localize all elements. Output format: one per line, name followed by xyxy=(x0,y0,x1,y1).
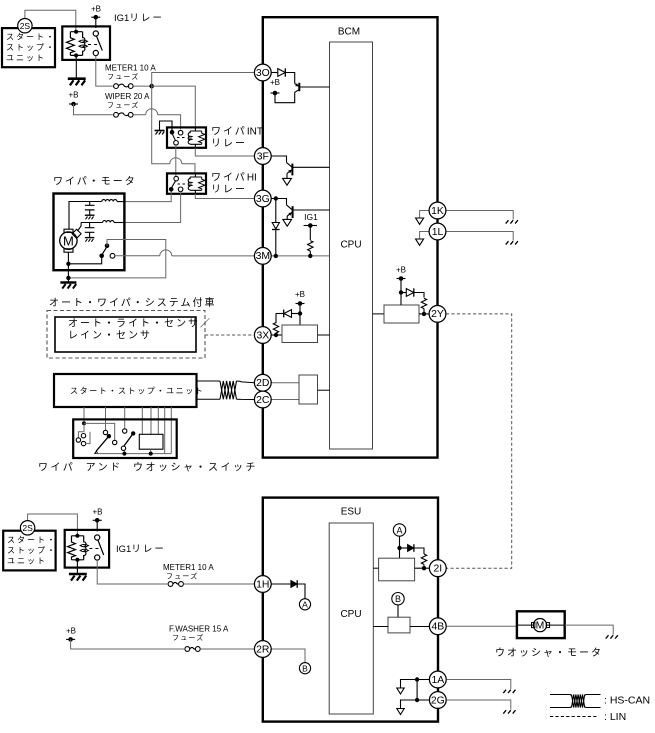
connector pin 1K xyxy=(429,202,446,219)
wire 1L to ground xyxy=(446,232,514,241)
arrow to ground (3F) xyxy=(283,178,292,185)
svg-text:ユニット: ユニット xyxy=(6,54,46,63)
svg-text:: LIN: : LIN xyxy=(604,711,626,723)
diode D-1H (pointing right) xyxy=(291,580,297,588)
svg-text:METER1 10 A: METER1 10 A xyxy=(105,64,156,73)
node dot IG1 resistor on 3M rail xyxy=(308,254,312,258)
twisted pair (HS-CAN to 2D/2C) xyxy=(220,381,237,399)
wire WIPER fuse to INT relay switch xyxy=(133,115,181,130)
power +B (F.WASHER) xyxy=(66,627,76,642)
wire CPU to driver 2I xyxy=(373,567,378,569)
wire 3G feed xyxy=(271,199,287,205)
svg-text:ウオッシャ・モータ: ウオッシャ・モータ xyxy=(495,647,603,659)
connector pin 2G xyxy=(429,692,446,709)
svg-text:: HS-CAN: : HS-CAN xyxy=(604,695,650,707)
ground (INT relay) xyxy=(155,131,165,135)
node dots on rail xyxy=(122,452,126,456)
node dot (loop to ground rail) xyxy=(66,276,70,280)
wire IG1 to resistor xyxy=(309,226,311,241)
svg-text:B: B xyxy=(302,664,308,674)
wire +B to F.WASHER fuse xyxy=(71,639,185,649)
wire park switch upper to outside loop xyxy=(68,240,165,278)
wire driver to 2I xyxy=(415,567,430,569)
svg-text:M: M xyxy=(63,233,74,248)
svg-text:ワイパ・モータ: ワイパ・モータ xyxy=(53,176,137,188)
wire relay coil to ground xyxy=(75,56,77,78)
motor winding row2 wire xyxy=(81,222,103,224)
svg-text:+B: +B xyxy=(396,266,406,275)
relay IG1 box (top) xyxy=(62,26,110,60)
wire 2G to ground xyxy=(447,700,511,710)
ground (1K) xyxy=(506,220,518,223)
resistor R-2Y xyxy=(421,298,426,308)
wire 3O feed inside BCM xyxy=(271,72,278,74)
svg-text:2I: 2I xyxy=(433,564,442,575)
wire driver to 4B xyxy=(410,626,430,628)
start-stop unit box (middle) xyxy=(54,374,204,407)
wire motor link to park switch pivot xyxy=(68,258,101,264)
relay HI switch xyxy=(169,176,185,191)
svg-text:ユニット: ユニット xyxy=(7,557,47,566)
wire ground to INT switch common xyxy=(160,121,173,132)
wire resistor to 2I node xyxy=(423,564,425,568)
svg-text:スタート・: スタート・ xyxy=(6,33,56,42)
wire fuse to junction xyxy=(133,85,152,87)
svg-text:+B: +B xyxy=(66,627,76,636)
label wiper HI relay xyxy=(211,172,257,196)
node dot below +B (3X) xyxy=(298,311,302,315)
wire row1 to box edge xyxy=(117,201,124,203)
motor M1 xyxy=(60,229,81,252)
svg-text:+B: +B xyxy=(68,91,78,100)
relay wiper-INT box xyxy=(167,127,206,147)
node dot (motor-park link) xyxy=(66,262,70,266)
wire driver to 2Y xyxy=(419,313,430,315)
svg-text:CPU: CPU xyxy=(340,240,361,251)
legend LIN dashed xyxy=(550,716,598,718)
connector pin 2Y xyxy=(429,306,446,323)
wire twisted pair lower xyxy=(197,398,221,400)
wire 3M rail to CPU xyxy=(271,255,330,257)
connector pin 2S (top) xyxy=(18,19,32,33)
wire 4B to washer motor xyxy=(447,625,517,627)
svg-text:+B: +B xyxy=(92,508,102,517)
wire junction down to HI relay feed xyxy=(152,86,195,173)
power +B (WIPER fuse) xyxy=(68,91,78,107)
connector pin 2C xyxy=(254,391,271,408)
svg-text:3M: 3M xyxy=(256,251,270,262)
connector pin 3M xyxy=(254,248,271,265)
svg-text:B: B xyxy=(395,594,401,604)
svg-text:フューズ: フューズ xyxy=(166,572,198,581)
wire +B to relay switch (bottom) xyxy=(96,520,98,531)
svg-text:2R: 2R xyxy=(256,644,270,655)
svg-text:オート・ワイパ・システム付車: オート・ワイパ・システム付車 xyxy=(49,296,217,309)
wire driver to CPU xyxy=(318,334,330,336)
node dot 2I xyxy=(422,566,426,570)
diode D-2I (pointing right) xyxy=(408,544,414,552)
svg-text:1K: 1K xyxy=(431,206,444,217)
washer motor M2 xyxy=(517,619,565,632)
driver box U-2I xyxy=(379,558,415,581)
svg-text:スタート・ストップ・ユニット: スタート・ストップ・ユニット xyxy=(70,387,204,396)
brush diagonal (row2 to motor) xyxy=(78,223,82,232)
resistor R-2I xyxy=(421,554,426,564)
svg-text:3F: 3F xyxy=(257,151,269,162)
svg-text:ストップ・: ストップ・ xyxy=(6,43,56,52)
svg-text:オート・ライト・センサ／: オート・ライト・センサ／ xyxy=(68,318,212,330)
wire 1A to ground xyxy=(447,680,511,690)
driver box U-3X xyxy=(282,325,318,343)
svg-text:ワイパHI: ワイパHI xyxy=(211,172,257,184)
svg-text:ワイパINT: ワイパINT xyxy=(211,126,263,138)
svg-text:1H: 1H xyxy=(256,579,269,590)
wire hop (METER1 over INT switch wire) xyxy=(170,158,182,164)
wire Q2 emitter down xyxy=(286,173,288,178)
wire hop (3M wire over park loop) xyxy=(160,250,172,256)
node label B (2R) xyxy=(299,663,310,674)
wire node to diode 2I xyxy=(400,547,408,549)
svg-text:2S: 2S xyxy=(22,523,33,533)
wire INT switch to HI relay xyxy=(175,145,177,177)
wire from diode to transistor Q1 xyxy=(285,73,294,84)
switch module box xyxy=(139,434,163,449)
transistor Q2 (3F) xyxy=(287,162,330,175)
connector pin 2S (bottom) xyxy=(20,521,34,535)
arrow connector (1L) xyxy=(416,239,424,245)
ground (1A) xyxy=(503,690,515,693)
svg-text:METER1 10 A: METER1 10 A xyxy=(163,563,214,572)
start-stop unit box (top) xyxy=(2,28,56,67)
svg-text:+B: +B xyxy=(295,290,305,299)
wire relay switch to METER1 fuse line xyxy=(96,56,113,87)
capacitor C1 chain (row1) xyxy=(85,202,95,220)
arrow connector (1A) xyxy=(397,688,404,694)
svg-text:3X: 3X xyxy=(256,330,269,341)
relay wiper-HI box xyxy=(167,173,206,193)
3X driver: wire from 3X to node xyxy=(271,334,282,336)
wire +B to relay switch xyxy=(95,17,97,28)
node dot (2I feed) xyxy=(397,546,401,550)
washer motor box xyxy=(517,611,565,638)
IG1 power terminal xyxy=(304,212,319,228)
relay HI coil xyxy=(188,173,205,193)
wire resistor up and right to diode xyxy=(276,313,284,315)
connector pin 3F xyxy=(254,148,271,165)
diode D-3G (cathode down) xyxy=(272,223,280,230)
connector pin 2I xyxy=(429,560,446,577)
wire relay switch to METER1 fuse (bottom) xyxy=(97,560,167,584)
connector pin 1L xyxy=(429,223,446,240)
power +B (IG1 relay top) xyxy=(91,5,101,20)
ground (wiper motor) xyxy=(60,283,76,289)
wire 3F feed xyxy=(271,156,287,162)
wire Q3 emitter down xyxy=(286,216,288,219)
relay IG1 coil (bottom) xyxy=(68,534,89,562)
wire 1H to diode xyxy=(271,583,291,585)
dashed wire sensor to 3X xyxy=(205,334,255,336)
svg-text:レイン・センサ: レイン・センサ xyxy=(68,330,152,342)
resistor R-3X (vertical) xyxy=(273,313,278,334)
node junction METER1 xyxy=(149,84,154,89)
ESU module box xyxy=(263,498,438,722)
1L external: wire left with arrow xyxy=(420,232,430,239)
label wiper INT relay xyxy=(211,126,263,150)
svg-text:2C: 2C xyxy=(256,395,270,406)
CPU box (ESU) xyxy=(329,523,373,714)
wire junction right to INT relay coil xyxy=(152,86,196,127)
wire HI coil to 3G xyxy=(195,194,255,199)
wire +B node to driver box xyxy=(299,314,301,326)
svg-text:ワイパ アンド ウオッシャ・スイッチ: ワイパ アンド ウオッシャ・スイッチ xyxy=(38,462,258,474)
power +B (3X area) xyxy=(295,290,305,314)
capacitor C2 chain (row2) xyxy=(85,223,95,242)
arrow connector (1K) xyxy=(416,218,424,224)
wire twist to 2C xyxy=(237,398,255,400)
relay INT coil xyxy=(188,127,205,147)
wire INT coil to 3F xyxy=(195,148,255,156)
wire 2G junction xyxy=(401,700,432,708)
wire fuse to 2R xyxy=(200,648,255,650)
svg-text:フューズ: フューズ xyxy=(107,72,139,81)
wiper motor box xyxy=(54,194,125,271)
interface box U-2D2C xyxy=(299,375,318,404)
relay IG1 coil (resistor + inductor) xyxy=(67,30,88,58)
wire junction up to 3O xyxy=(152,73,255,87)
diode D-2Y (pointing right) xyxy=(406,288,414,296)
dashed enclosure (auto wiper) xyxy=(47,311,205,359)
label METER1 fuse xyxy=(105,64,156,82)
wire hop (WIPER over METER1 branch) xyxy=(146,109,158,115)
svg-text:ストップ・: ストップ・ xyxy=(7,546,57,555)
wire resistor to 3M rail xyxy=(309,251,311,256)
transistor Q1 (3O output) xyxy=(295,83,330,93)
svg-text:1L: 1L xyxy=(432,227,444,238)
connector pin 1A xyxy=(429,671,446,688)
inductor L1 (row1) xyxy=(102,200,117,202)
wire +B down to node xyxy=(400,279,402,293)
power +B (3O area) xyxy=(270,78,280,95)
wire park NO contact to 3M xyxy=(115,255,255,257)
wire 2S to relay coil (bottom) xyxy=(28,514,78,536)
wire interface box to CPU xyxy=(318,389,330,391)
wire motor to ground rail xyxy=(67,252,69,282)
inductor L2 (row2) xyxy=(103,221,114,223)
svg-text:3O: 3O xyxy=(256,68,270,79)
wire relay coil to ground (bottom) xyxy=(76,560,78,574)
node 3G junction dot xyxy=(274,196,278,200)
power +B (IG1 relay bottom) xyxy=(92,508,102,523)
svg-text:M: M xyxy=(536,621,545,632)
connector pin 4B xyxy=(429,618,446,635)
park switch xyxy=(99,243,115,258)
node label A (1H) xyxy=(299,599,310,610)
node label B (4B driver) xyxy=(392,593,404,605)
wire 2R to node B xyxy=(271,649,305,663)
label WIPER fuse xyxy=(105,92,150,110)
ground (2G) xyxy=(503,710,515,713)
driver box U-4B xyxy=(388,617,410,633)
svg-text:3G: 3G xyxy=(256,194,270,205)
relay IG1 switch (bottom) xyxy=(89,535,103,560)
svg-text:2D: 2D xyxy=(256,378,269,389)
washer switch blade B xyxy=(121,429,135,451)
wire A to node dot xyxy=(399,536,401,548)
diode D-3O xyxy=(278,68,286,76)
node dot (2Y +B) xyxy=(399,290,403,294)
relay IG1 switch xyxy=(88,31,102,56)
wire 3G dot down to diode xyxy=(275,199,277,223)
svg-text:2Y: 2Y xyxy=(431,309,444,320)
resistor R-IG1 xyxy=(308,241,313,251)
connector pin 2R xyxy=(254,641,271,658)
relay INT switch xyxy=(170,130,185,145)
svg-text:1A: 1A xyxy=(431,675,444,686)
wire B to driver box xyxy=(397,605,399,617)
arrow to ground (3G) xyxy=(283,219,292,226)
fuse F.WASHER 15A xyxy=(185,647,200,652)
wire diode to resistor 2I xyxy=(414,548,424,554)
node dot 3X xyxy=(274,333,278,337)
wire 2S to relay coil xyxy=(25,10,76,32)
connector pin 3O xyxy=(254,64,271,81)
node label A (2I driver) xyxy=(393,524,405,536)
node dot 2G xyxy=(415,698,419,702)
wire +B to WIPER fuse xyxy=(74,104,113,115)
wire 1A junction xyxy=(401,680,432,688)
wire Q1 emitter to +B xyxy=(275,92,295,102)
wire diode to 3M rail xyxy=(275,230,277,256)
wire 2C to interface box xyxy=(271,399,299,401)
svg-text:IG1リレー: IG1リレー xyxy=(116,544,166,555)
label F.WASHER fuse xyxy=(169,625,229,643)
svg-text:ESU: ESU xyxy=(341,507,362,518)
fuse METER1 10A xyxy=(114,84,134,89)
wire diode to +B node xyxy=(292,313,301,315)
connector pin 1H xyxy=(254,576,271,593)
1K external: wire left with arrow xyxy=(420,211,430,218)
wire node to driver box xyxy=(399,548,401,558)
wire 1K to ground xyxy=(446,211,514,220)
label METER1 fuse (bottom) xyxy=(163,563,214,581)
svg-text:A: A xyxy=(396,525,402,535)
svg-text:+B: +B xyxy=(270,78,280,87)
wire resistor to 2Y node xyxy=(423,309,425,314)
wiper mode switch blade A xyxy=(95,430,117,453)
LIN dashed wire 2Y to 2I xyxy=(446,314,512,568)
fuse WIPER 20A xyxy=(114,112,134,117)
sensor box xyxy=(55,317,196,352)
node dot 2Y xyxy=(422,312,426,316)
switch cluster (int volume) xyxy=(76,421,114,445)
fuse METER1 10A (bottom) xyxy=(168,582,183,587)
svg-text:4B: 4B xyxy=(431,622,444,633)
svg-text:WIPER 20 A: WIPER 20 A xyxy=(105,92,150,101)
svg-text:CPU: CPU xyxy=(340,609,361,620)
svg-text:スタート・: スタート・ xyxy=(7,536,57,545)
connector pin 2D xyxy=(254,374,271,391)
wires start-stop unit to switch box xyxy=(84,407,171,454)
svg-text:リレー: リレー xyxy=(211,139,247,150)
ground (1L) xyxy=(506,241,518,244)
wire HI NC contact to motor row1 xyxy=(124,192,171,202)
svg-text:フューズ: フューズ xyxy=(172,633,204,642)
switch bottom rail xyxy=(96,453,171,455)
wire twist to 2D xyxy=(237,381,255,383)
BCM module box xyxy=(263,17,438,457)
power +B (2Y area) xyxy=(396,266,406,281)
connector pin 3X xyxy=(254,327,271,344)
svg-text:A: A xyxy=(302,600,308,610)
wire CPU to driver 4B xyxy=(373,626,388,628)
wire node to diode xyxy=(401,292,406,294)
diode D-3X (pointing left) xyxy=(284,310,292,318)
wire diode to resistor xyxy=(414,293,424,298)
node dot 3G-diode on 3M rail xyxy=(274,254,278,258)
svg-text:IG1リレー: IG1リレー xyxy=(114,13,164,24)
start-stop unit box (bottom) xyxy=(3,531,57,571)
wire HI NO contact to motor row2 xyxy=(124,192,180,223)
arrow connector (2G) xyxy=(397,709,404,715)
wire 1A-2G tie xyxy=(416,680,418,701)
wire fuse to 1H xyxy=(183,583,254,585)
motor winding row1 wire xyxy=(69,202,102,230)
2Y driver circuit: wire CPU to driver xyxy=(373,313,385,315)
rail risers xyxy=(124,449,150,453)
svg-text:F.WASHER 15 A: F.WASHER 15 A xyxy=(169,625,229,634)
svg-text:IG1: IG1 xyxy=(304,212,318,222)
relay IG1 box (bottom) xyxy=(65,530,109,568)
svg-text:2G: 2G xyxy=(431,695,445,706)
svg-text:BCM: BCM xyxy=(338,27,360,38)
wire twisted pair upper xyxy=(197,380,221,382)
ground (IG1 relay) xyxy=(68,79,86,86)
wire row2 to box edge xyxy=(114,222,124,224)
wire diode to node A xyxy=(297,584,305,599)
CPU box (BCM) xyxy=(330,42,373,449)
connector pin 3G xyxy=(254,190,271,207)
transistor Q3 (3G) xyxy=(287,205,330,218)
wire node down to driver top xyxy=(400,293,402,306)
wire washer motor to ground xyxy=(565,625,614,634)
wire 2D to interface box xyxy=(271,382,299,384)
svg-text:フューズ: フューズ xyxy=(107,101,139,110)
wiper and washer switch box xyxy=(73,419,177,458)
ground (washer motor) xyxy=(606,635,618,638)
node dot 1A xyxy=(415,677,419,681)
driver box U-2Y xyxy=(384,305,419,323)
svg-text:リレー: リレー xyxy=(211,185,247,196)
svg-text:2S: 2S xyxy=(20,21,31,31)
svg-text:+B: +B xyxy=(91,5,101,14)
ground (IG1 relay bottom) xyxy=(69,574,87,581)
legend HS-CAN symbol xyxy=(550,695,601,708)
